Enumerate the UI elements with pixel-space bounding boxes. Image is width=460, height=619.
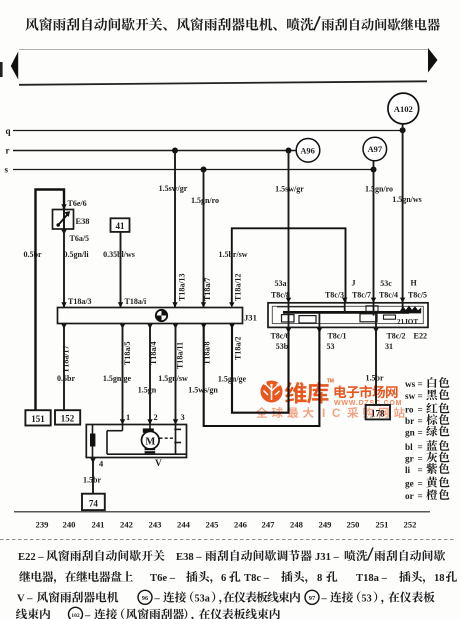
svg-text:T18a/11: T18a/11 [176, 342, 185, 369]
wire 1.5gn/ge to motor1 [122, 324, 124, 425]
pin T8c/5 [400, 298, 405, 303]
svg-text:1.5gn/ws: 1.5gn/ws [392, 195, 422, 204]
wire 0.5gn/li [63, 229, 65, 307]
wire bracket top [36, 190, 65, 411]
svg-text:1.5gn/ro: 1.5gn/ro [191, 196, 219, 205]
ruler line [14, 511, 430, 513]
wire 1.5br to 178 [375, 327, 377, 405]
node A102 [388, 93, 419, 124]
svg-text:18: 18 [434, 573, 445, 584]
pin T18a/5 [120, 324, 125, 329]
svg-text:T8c/8: T8c/8 [271, 291, 290, 300]
ruler dashed line [0, 539, 456, 541]
svg-text:E38 –: E38 – [176, 552, 202, 563]
svg-text:J: J [352, 279, 356, 288]
pin T18a/7 [201, 302, 206, 307]
svg-text:74: 74 [89, 498, 99, 508]
svg-text:1.5gn/ge: 1.5gn/ge [218, 375, 247, 384]
svg-text:53: 53 [362, 594, 372, 605]
svg-text:gn: gn [405, 428, 415, 438]
svg-text:A102: A102 [394, 104, 413, 114]
relay plate box J31 [58, 308, 243, 324]
svg-text:li: li [405, 465, 411, 475]
svg-text:=: = [418, 454, 423, 464]
pin T6e/6 [61, 204, 66, 209]
svg-text:=: = [418, 442, 423, 452]
wire rail s [13, 169, 374, 171]
svg-text:96: 96 [142, 595, 149, 602]
svg-text:=: = [418, 379, 423, 389]
svg-text:T8c/7: T8c/7 [352, 291, 371, 300]
svg-text:1.5sw/gr: 1.5sw/gr [159, 184, 188, 193]
svg-text:r: r [6, 146, 10, 156]
svg-text:J31 –: J31 – [315, 552, 340, 563]
svg-text:249: 249 [319, 520, 332, 530]
svg-text:or: or [405, 491, 414, 501]
svg-text:0.5gn/li: 0.5gn/li [63, 250, 89, 259]
wire 1.5sw/gr right [288, 151, 290, 303]
svg-text:T8c/6: T8c/6 [270, 332, 289, 341]
svg-text:1.5br: 1.5br [83, 476, 101, 485]
svg-text:246: 246 [234, 520, 248, 530]
svg-text:T18a/7: T18a/7 [203, 277, 212, 301]
svg-text:242: 242 [120, 520, 133, 530]
svg-text:I: I [322, 407, 325, 420]
svg-text:252: 252 [404, 520, 417, 530]
pin T18a/11 [173, 324, 178, 329]
ground 74 [82, 494, 105, 510]
junction on r at wire 1.5sw/gr [172, 148, 178, 154]
pin T18a/4 [147, 324, 152, 329]
svg-text:=: = [418, 416, 423, 426]
svg-text:53: 53 [327, 342, 335, 351]
ground 178 [366, 405, 390, 419]
pin T18a/2 [229, 324, 234, 329]
wire 1.5gn to motor2 [149, 324, 151, 425]
svg-text:ws: ws [405, 379, 416, 389]
svg-text:ge: ge [405, 479, 414, 489]
pin T8c/8 [286, 298, 291, 303]
svg-text:3: 3 [181, 413, 185, 422]
svg-text:31: 31 [385, 342, 393, 351]
svg-text:=: = [418, 391, 423, 401]
svg-text:21JOT: 21JOT [397, 318, 418, 326]
node A96 [296, 139, 320, 163]
svg-text:53b: 53b [276, 342, 289, 351]
svg-text:T18a/13: T18a/13 [178, 273, 187, 301]
svg-text:53c: 53c [380, 279, 392, 288]
ground 151 [25, 410, 50, 425]
pin T18a/17 [61, 324, 66, 329]
svg-text:T8c/5: T8c/5 [408, 291, 427, 300]
junction on s at wire 1.5gn/ro [201, 167, 207, 173]
svg-text:T18a/3: T18a/3 [68, 297, 92, 306]
svg-text:240: 240 [63, 520, 76, 530]
junction on r end [286, 148, 292, 154]
pin motor 2 [147, 419, 152, 424]
terminal box 41 [111, 218, 130, 232]
wire 1.5gn/sw to motor3 [175, 324, 177, 425]
svg-text:=: = [418, 428, 423, 438]
svg-text:ro: ro [405, 405, 414, 415]
wire rail q [13, 130, 403, 132]
svg-text:1.5br: 1.5br [366, 374, 384, 383]
wire rail r [13, 150, 297, 152]
svg-text:=: = [418, 479, 423, 489]
junction on s end [371, 167, 377, 173]
svg-text:T8c/2: T8c/2 [386, 332, 405, 341]
svg-text:53a: 53a [195, 594, 210, 605]
svg-text:s: s [5, 165, 9, 175]
svg-text:gr: gr [405, 454, 414, 464]
svg-text:1.5ws/gn: 1.5ws/gn [188, 386, 218, 395]
svg-text:H: H [411, 279, 418, 288]
motor internals [90, 425, 187, 458]
svg-text:1.5gn/sw: 1.5gn/sw [158, 374, 188, 383]
svg-text:br: br [405, 416, 414, 426]
pin T18a/i [118, 302, 123, 307]
svg-text:T18a/5: T18a/5 [123, 341, 132, 365]
svg-text:251: 251 [376, 520, 389, 530]
svg-text:239: 239 [36, 520, 49, 530]
svg-text:245: 245 [206, 520, 219, 530]
svg-text:A97: A97 [368, 145, 382, 154]
switch E38 [53, 210, 74, 230]
svg-text:248: 248 [290, 520, 304, 530]
svg-text:T6e/6: T6e/6 [68, 199, 87, 208]
svg-text:1.5gn: 1.5gn [138, 386, 157, 395]
wire 1.5gn/ro left [203, 170, 205, 308]
svg-text:97: 97 [309, 595, 316, 602]
pin motor 1 [120, 419, 125, 424]
connection symbol in J31 [156, 310, 167, 321]
svg-text:T6a/5: T6a/5 [70, 234, 90, 243]
svg-text:T18a/2: T18a/2 [234, 336, 243, 360]
svg-text:241: 241 [92, 520, 105, 530]
wire 1.5gn/ro right [373, 170, 375, 303]
svg-text:1.5br/sw: 1.5br/sw [218, 250, 247, 259]
motor V box [86, 425, 186, 458]
svg-text:=: = [418, 405, 423, 415]
svg-text:0.5br: 0.5br [24, 250, 42, 259]
svg-text:0.5br: 0.5br [57, 374, 75, 383]
svg-text:–: – [84, 611, 91, 619]
svg-text:M: M [145, 436, 155, 447]
svg-text:178: 178 [371, 408, 385, 418]
svg-text:A96: A96 [300, 146, 314, 155]
svg-text:T18a/i: T18a/i [125, 297, 148, 306]
pin T8c/7 [371, 298, 376, 303]
svg-text:250: 250 [347, 520, 360, 530]
svg-text:E22: E22 [414, 332, 428, 341]
color legend [405, 377, 449, 501]
svg-text:E38: E38 [76, 217, 90, 226]
svg-text:V: V [155, 459, 162, 469]
svg-text:T8c –: T8c – [244, 573, 270, 584]
svg-text:102: 102 [71, 613, 80, 619]
svg-text:1.5gn/ge: 1.5gn/ge [103, 374, 132, 383]
pin T8c/3 [342, 298, 347, 303]
svg-text:T8c/1: T8c/1 [327, 332, 346, 341]
svg-text:247: 247 [262, 520, 276, 530]
node A97 [363, 137, 387, 161]
title text [25, 16, 440, 30]
wire 1.5sw/gr left [174, 151, 176, 308]
pin T18a/3 [61, 302, 66, 307]
bus bar 30 band [0, 48, 438, 85]
svg-text:152: 152 [61, 413, 75, 423]
stub A102 to q [402, 123, 404, 130]
svg-text:6: 6 [221, 573, 226, 584]
svg-text:=: = [418, 491, 423, 501]
svg-text:–: – [321, 594, 328, 605]
svg-text:T18a/17: T18a/17 [62, 345, 71, 373]
svg-text:8: 8 [317, 573, 322, 584]
svg-text:0.35bl/ws: 0.35bl/ws [103, 250, 135, 259]
svg-text:2: 2 [154, 413, 158, 422]
svg-text:T8c/4: T8c/4 [379, 291, 398, 300]
pin motor 3 [173, 419, 178, 424]
svg-text:–: – [154, 594, 161, 605]
svg-text:T18a/12: T18a/12 [234, 273, 243, 301]
svg-text:T8c/3: T8c/3 [325, 291, 344, 300]
ground 152 [55, 410, 80, 424]
svg-text:sw: sw [405, 391, 416, 401]
pin T18a/13 [172, 302, 177, 307]
svg-text:1: 1 [126, 413, 130, 422]
motor M [142, 431, 160, 449]
svg-text:T18a –: T18a – [356, 573, 388, 584]
wire pin4 [92, 458, 94, 494]
svg-text:41: 41 [116, 221, 126, 231]
svg-text:53a: 53a [275, 279, 287, 288]
junction on q end [400, 127, 406, 133]
svg-text:C: C [332, 407, 341, 420]
svg-text:1.5gn/ro: 1.5gn/ro [365, 185, 393, 194]
svg-text:q: q [6, 126, 11, 136]
svg-text:V –: V – [17, 594, 33, 605]
watermark [256, 378, 405, 420]
svg-text:T6e –: T6e – [150, 573, 176, 584]
relay J31 [268, 303, 428, 328]
pin T18a/8 [201, 324, 206, 329]
svg-text:=: = [418, 465, 423, 475]
svg-text:bl: bl [405, 442, 413, 452]
svg-text:151: 151 [31, 414, 45, 424]
pin T8c/6 [286, 328, 291, 333]
ruler numbers [36, 520, 417, 530]
pin T8c/2 [373, 328, 378, 333]
wire 0.35bl/ws [120, 232, 122, 307]
caption text [16, 548, 457, 619]
svg-text:244: 244 [177, 520, 191, 530]
pin T6a/5 [61, 230, 66, 235]
svg-text:1.5sw/gr: 1.5sw/gr [275, 185, 304, 194]
pin T18a/12 [229, 302, 234, 307]
svg-text:E22 –: E22 – [18, 552, 44, 563]
svg-text:TM: TM [327, 378, 334, 384]
wire 1.5gn/ws [402, 130, 404, 302]
wire 0.5br to 152 [63, 324, 65, 411]
wire 1.5gn/ge link [232, 324, 289, 413]
wire 1.5ws/gn link [204, 324, 320, 427]
svg-text:243: 243 [149, 520, 162, 530]
pin T8c/1 [317, 328, 322, 333]
pin 4 [90, 458, 95, 463]
svg-text:J31: J31 [244, 313, 257, 323]
stub A97 to s [373, 160, 375, 169]
wire 1.5br/sw link [232, 228, 346, 303]
